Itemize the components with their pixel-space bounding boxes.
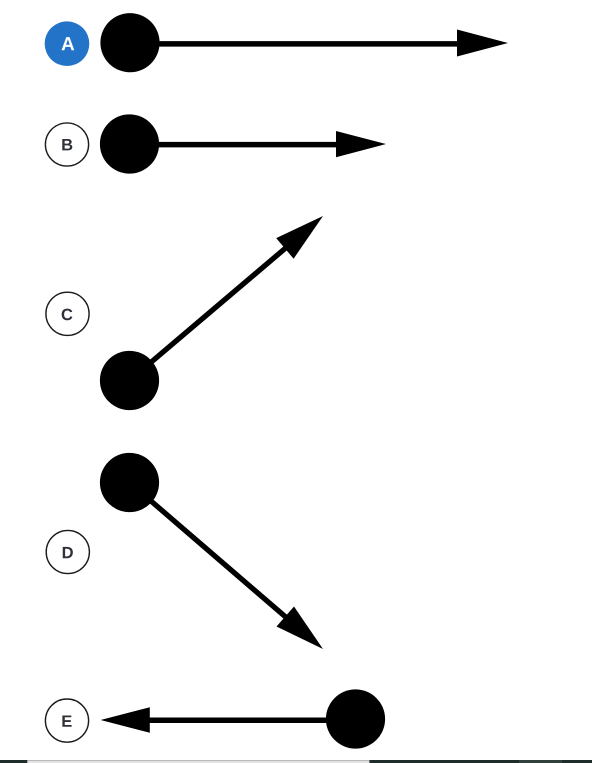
ball C (100, 351, 159, 410)
arrow C (up-right diagonal) (130, 216, 324, 381)
option badge C (46, 292, 89, 335)
bottom bar: lighter sub-segment on right dark bar (519, 760, 562, 763)
ball E (326, 689, 385, 748)
ball A (100, 13, 159, 72)
arrow A (long, rightward) (130, 30, 508, 57)
bottom bar: left dark segment (0, 760, 27, 763)
ball B (100, 114, 159, 173)
bottom bar: light gray middle segment (27, 760, 369, 761)
arrow E (leftward) (101, 707, 356, 732)
option badge B (45, 123, 88, 166)
option badge D (46, 530, 89, 573)
arrow B (short, rightward) (130, 131, 387, 157)
arrow D (down-right diagonal) (130, 483, 324, 650)
option badge E (45, 699, 88, 742)
ball D (100, 453, 159, 512)
option badge A (selected, blue) (45, 21, 90, 66)
bottom bar: right dark segment (369, 760, 592, 763)
